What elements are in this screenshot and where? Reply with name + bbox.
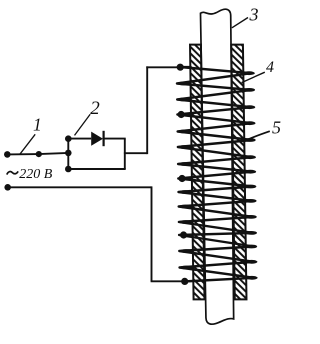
svg-text:4: 4 (266, 59, 274, 76)
winding tap stub at y178 (182, 177, 192, 179)
junction bus vertical wire (67, 139, 69, 169)
winding top terminal dot (177, 64, 184, 71)
winding right apex blobs (243, 71, 258, 279)
label ~220 V : tilde (7, 171, 18, 174)
svg-text:5: 5 (272, 118, 281, 138)
winding tap dot at y235 (180, 231, 187, 238)
insulation block 4 left column (190, 45, 204, 300)
svg-text:1: 1 (33, 114, 42, 134)
wire: diode branch anode lead (68, 138, 91, 140)
winding tap dot at y178 (178, 175, 185, 182)
wire: bypass (lower) branch (68, 168, 125, 170)
wire: downcomer to winding bottom terminal (151, 186, 153, 281)
svg-text:3: 3 (249, 4, 259, 24)
winding top terminal stub (180, 66, 191, 68)
winding left apex blobs (177, 82, 193, 270)
node: plug terminal (bottom) (4, 184, 11, 191)
winding tap stub at y115 (182, 113, 192, 115)
svg-text:2: 2 (90, 98, 100, 119)
leader line for label 4 (242, 72, 265, 82)
leader line for label 5 (244, 131, 270, 141)
node: plug terminal (top) (4, 151, 11, 158)
diode VD1 triangle (91, 132, 103, 146)
winding tap stub at y235 (183, 234, 193, 236)
wire: horizontal feed to winding bottom terminal (151, 280, 184, 282)
wire: riser up to winding top terminal (146, 66, 148, 154)
leader line for label 1 (20, 134, 35, 154)
wire: right joining bar of parallel branches (124, 139, 126, 169)
wire: switch to junction bus (39, 153, 69, 154)
winding 5 zigzag (177, 67, 254, 282)
insulation block 4 right column (231, 45, 246, 300)
wire: horizontal feed to winding top terminal (146, 66, 180, 68)
winding tap dot at y115 (178, 111, 185, 118)
wire: output of parallel block (124, 152, 147, 154)
winding bottom terminal dot (181, 278, 188, 285)
svg-text:220 В: 220 В (19, 167, 53, 182)
wire: diode cathode lead (104, 138, 126, 140)
diode VD1 cathode bar (102, 131, 104, 146)
leader line for label 2 (75, 114, 91, 135)
node: bus middle (65, 150, 72, 157)
wire: phase lead from plug terminal to switch contact (7, 153, 39, 155)
wire: neutral lead long horizontal (8, 186, 152, 188)
pipe 3 body (200, 9, 235, 324)
node: switch contact (36, 151, 42, 157)
node: bus top (65, 135, 72, 142)
node: bus bottom (65, 166, 72, 173)
leader line for label 3 (232, 18, 248, 28)
